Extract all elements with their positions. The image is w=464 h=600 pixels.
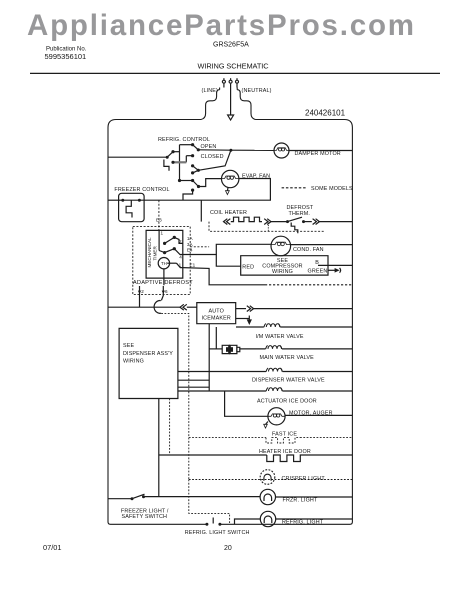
svg-text:RED: RED <box>242 265 254 271</box>
plug prong NEUTRAL <box>236 78 239 87</box>
ground wire from center prong <box>230 88 232 115</box>
label DAMPER MOTOR <box>295 151 341 157</box>
freezer control contacts and bellows <box>123 200 140 217</box>
wire timer contact 4 to split <box>183 244 271 266</box>
footer page 20 <box>224 545 232 552</box>
svg-text:MECHANICAL: MECHANICAL <box>147 237 152 268</box>
header rule <box>30 72 440 74</box>
svg-text:2: 2 <box>179 239 182 244</box>
frzr light bulb <box>260 489 275 504</box>
svg-text:240426101: 240426101 <box>305 109 346 118</box>
refrig control contact dots <box>171 143 200 192</box>
label REFRIG. LIGHT <box>282 520 324 526</box>
node damper junction <box>229 149 232 152</box>
dispenser assembly box <box>119 328 178 398</box>
connector chevrons before icemaker <box>180 304 197 310</box>
timer contact dots <box>163 236 176 254</box>
I/M valve coil <box>264 324 280 328</box>
wire refrig light to right bus <box>276 518 353 520</box>
wire E2 stub down to icemaker rung <box>138 286 141 307</box>
freezer control box <box>119 193 145 221</box>
wire icemaker box to main valve rung <box>209 324 222 391</box>
timer motor TH <box>158 258 169 269</box>
label EVAP. FAN <box>242 174 270 180</box>
label AUTO ICEMAKER <box>202 309 231 322</box>
crisper bulb filament <box>264 474 271 481</box>
svg-text:1A: 1A <box>187 236 194 241</box>
svg-text:ACTUATOR ICE DOOR: ACTUATOR ICE DOOR <box>257 399 317 405</box>
svg-text:07/01: 07/01 <box>43 543 62 552</box>
label COND. FAN <box>293 247 324 253</box>
svg-text:5995356101: 5995356101 <box>45 52 87 61</box>
label ACTUATOR ICE DOOR <box>257 399 317 405</box>
dispenser valve coil <box>266 368 282 372</box>
label MOTOR, AUGER <box>289 411 333 417</box>
wire left bus to freezer control <box>108 199 123 201</box>
label HEATER ICE DOOR <box>259 449 311 455</box>
coil heater resistor <box>231 217 262 221</box>
label GREEN <box>308 268 328 274</box>
label TH <box>161 261 167 266</box>
freezer light safety switch <box>108 494 260 499</box>
cord hump right <box>237 90 255 120</box>
node main line junction <box>166 156 169 159</box>
svg-text:SEE: SEE <box>123 343 134 349</box>
publication number block <box>45 47 87 62</box>
svg-text:1: 1 <box>161 230 164 235</box>
svg-text:WIRING: WIRING <box>123 358 144 364</box>
edge labels 1A 3A E4 <box>187 236 194 252</box>
footer 07/01 <box>43 543 62 552</box>
label DISPENSER WATER VALVE <box>252 378 325 384</box>
svg-text:FAST ICE: FAST ICE <box>272 432 297 438</box>
svg-text:FREEZER CONTROL: FREEZER CONTROL <box>114 187 169 193</box>
svg-text:SOME MODELS: SOME MODELS <box>311 186 353 192</box>
svg-text:AUTO: AUTO <box>208 309 223 315</box>
label SEE DISPENSER ASSY WIRING <box>123 343 173 364</box>
wire auger motor to right bus <box>285 414 352 416</box>
wire damper motor to right bus <box>289 150 352 152</box>
label REFRIG. CONTROL <box>158 137 210 143</box>
cord hump left <box>201 90 220 120</box>
svg-text:REFRIG. LIGHT: REFRIG. LIGHT <box>282 520 324 526</box>
svg-text:4: 4 <box>179 254 182 259</box>
wire frzr light to right bus <box>276 496 353 498</box>
label MECHANICAL TIMER vertical <box>147 237 157 268</box>
svg-text:CLOSED: CLOSED <box>201 154 224 160</box>
legend dashes SOME MODELS <box>282 187 308 189</box>
label ADAPTIVE DEFROST <box>133 280 193 286</box>
label E1 <box>190 263 196 268</box>
timer pin labels <box>161 230 183 267</box>
label SEE COMPRESSOR WIRING <box>262 258 302 275</box>
label E3 <box>156 218 162 223</box>
some models dashed tap under coil heater <box>209 222 325 232</box>
schematic part number 240426101 <box>305 109 346 118</box>
heater ice door rung <box>159 399 353 497</box>
svg-text:COIL HEATER: COIL HEATER <box>210 210 247 216</box>
mechanical timer box <box>146 230 183 278</box>
svg-text:AppliancePartsPros.com: AppliancePartsPros.com <box>27 9 416 42</box>
svg-text:GRS26F5A: GRS26F5A <box>213 42 249 49</box>
refrig control cam bar <box>174 161 186 163</box>
plug prong LINE <box>222 78 225 87</box>
ground symbol under plug <box>228 115 234 120</box>
wire icemaker to chevrons right <box>236 306 353 312</box>
svg-text:COND. FAN: COND. FAN <box>293 247 324 253</box>
wire cond fan to right bus <box>290 244 352 246</box>
label (LINE) <box>202 88 219 94</box>
wire B to right bus <box>318 264 352 266</box>
wire open contact to damper motor <box>198 150 231 171</box>
main water valve coil <box>240 348 353 350</box>
svg-text:6: 6 <box>165 289 168 294</box>
refrig light bulb <box>260 511 275 526</box>
cond fan motor M3 <box>271 236 291 256</box>
wire TH motor down to E6 <box>163 269 165 285</box>
compressor wiring box <box>241 256 328 275</box>
model number GRS26F5A <box>213 42 249 49</box>
label FREEZER CONTROL <box>114 187 169 193</box>
title WIRING SCHEMATIC <box>198 62 270 71</box>
connector chevrons after coil heater <box>264 219 271 225</box>
svg-text:WIRING: WIRING <box>272 269 293 275</box>
wire dispenser box to auger motor <box>225 391 268 416</box>
label (NEUTRAL) <box>242 88 272 94</box>
step from defrost therm to dashed tap <box>291 223 298 234</box>
svg-text:TIMER: TIMER <box>153 246 158 261</box>
label RED <box>242 265 254 271</box>
svg-text:REFRIG. CONTROL: REFRIG. CONTROL <box>158 137 210 143</box>
svg-text:REFRIG. LIGHT SWITCH: REFRIG. LIGHT SWITCH <box>185 530 250 536</box>
dashed E3 riser freezer to timer <box>158 200 160 230</box>
labels E2 E6 <box>141 289 168 294</box>
actuator ice door rung <box>178 380 353 391</box>
svg-text:ADAPTIVE DEFROST: ADAPTIVE DEFROST <box>133 280 193 286</box>
wire GREEN to chassis ground arrow <box>328 268 341 273</box>
dashed wire dispenser box down to fast ice <box>169 399 171 455</box>
freezer switch dots <box>131 495 146 500</box>
connector chevrons before coil heater <box>224 219 231 225</box>
svg-text:ICEMAKER: ICEMAKER <box>202 315 231 321</box>
wire junction to damper motor <box>231 149 274 151</box>
svg-text:(LINE): (LINE) <box>202 88 219 94</box>
svg-text:I/M WATER VALVE: I/M WATER VALVE <box>256 334 304 340</box>
wire main line to refrig control <box>108 156 167 158</box>
fast ice dashed heater rung <box>189 438 353 443</box>
svg-text:E1: E1 <box>190 263 196 268</box>
svg-text:HEATER ICE DOOR: HEATER ICE DOOR <box>259 449 311 455</box>
label FREEZER LIGHT / SAFETY SWITCH <box>121 509 169 521</box>
svg-text:WIRING SCHEMATIC: WIRING SCHEMATIC <box>198 62 270 71</box>
refrig light switch <box>212 518 214 524</box>
ground at auger motor <box>264 422 268 429</box>
label CLOSED <box>201 154 224 160</box>
svg-text:MAIN WATER VALVE: MAIN WATER VALVE <box>260 355 315 361</box>
auger motor M4 <box>268 408 285 425</box>
svg-text:DAMPER MOTOR: DAMPER MOTOR <box>295 151 341 157</box>
label CRISPER LIGHT <box>282 476 326 482</box>
actuator coil <box>266 388 282 392</box>
refrig control switch assembly <box>164 145 199 201</box>
svg-text:DISPENSER ASS'Y: DISPENSER ASS'Y <box>123 351 173 357</box>
ground at evap fan <box>226 188 230 195</box>
svg-text:TH: TH <box>161 261 167 266</box>
svg-text:3A: 3A <box>187 242 194 247</box>
icemaker arrow tap down <box>236 316 251 324</box>
refrig light switch dots <box>205 523 221 526</box>
plug prong ground center <box>229 78 232 87</box>
inline connector on main valve rung <box>222 345 240 353</box>
logo AppliancePartsPros.com <box>27 9 416 42</box>
svg-text:2: 2 <box>141 289 144 294</box>
label SOME MODELS <box>311 186 353 192</box>
dispenser water valve rung <box>178 371 353 373</box>
wire left bus to icemaker rung <box>108 301 180 314</box>
svg-text:THERM.: THERM. <box>289 211 311 217</box>
svg-text:CRISPER LIGHT: CRISPER LIGHT <box>282 476 326 482</box>
svg-text:SAFETY SWITCH: SAFETY SWITCH <box>122 514 168 520</box>
damper motor M1 <box>274 143 289 158</box>
wire refrig light to bottom bus <box>235 519 261 524</box>
label FRZR. LIGHT <box>283 498 318 504</box>
svg-text:GREEN: GREEN <box>308 268 328 274</box>
svg-text:(NEUTRAL): (NEUTRAL) <box>242 88 272 94</box>
defrost therm dots <box>286 220 305 223</box>
wire closed contact riser to evap fan <box>199 179 222 187</box>
auto icemaker box <box>197 303 236 324</box>
label B <box>315 260 319 266</box>
evap fan motor M2 <box>222 170 239 187</box>
defrost thermostat switch <box>288 217 303 221</box>
adaptive defrost dashed box <box>133 226 190 294</box>
label OPEN <box>201 144 217 150</box>
main valve coil <box>266 345 282 349</box>
svg-text:FRZR. LIGHT: FRZR. LIGHT <box>283 498 318 504</box>
wire to defrost therm <box>271 221 288 223</box>
dashed some models drop line <box>161 313 352 524</box>
svg-text:1: 1 <box>179 263 182 268</box>
svg-text:DISPENSER WATER VALVE: DISPENSER WATER VALVE <box>252 378 325 384</box>
wire E1 from timer <box>183 268 353 285</box>
connector chevrons after defrost therm <box>304 219 353 225</box>
timer internal contacts <box>159 230 183 267</box>
dashed E4 stub <box>190 246 209 248</box>
wire D13 riser junction to coil heater riser <box>200 200 202 221</box>
crisper light dashed bulb <box>260 470 275 485</box>
svg-text:20: 20 <box>224 545 232 552</box>
label DEFROST THERM. <box>287 205 314 217</box>
svg-text:E3: E3 <box>156 218 162 223</box>
freezer control dots <box>121 199 141 202</box>
label FAST ICE <box>272 432 297 438</box>
label REFRIG. LIGHT SWITCH <box>185 530 250 536</box>
wire E6 stub down to icemaker rung <box>161 286 165 300</box>
wire evap fan loop to freezer line <box>139 179 270 201</box>
main schematic border with plug hump <box>108 88 352 525</box>
label I/M WATER VALVE <box>256 334 304 340</box>
label MAIN WATER VALVE <box>260 355 315 361</box>
I/M water valve rung <box>236 326 352 328</box>
svg-text:E4: E4 <box>187 248 193 253</box>
label COIL HEATER <box>210 210 247 216</box>
